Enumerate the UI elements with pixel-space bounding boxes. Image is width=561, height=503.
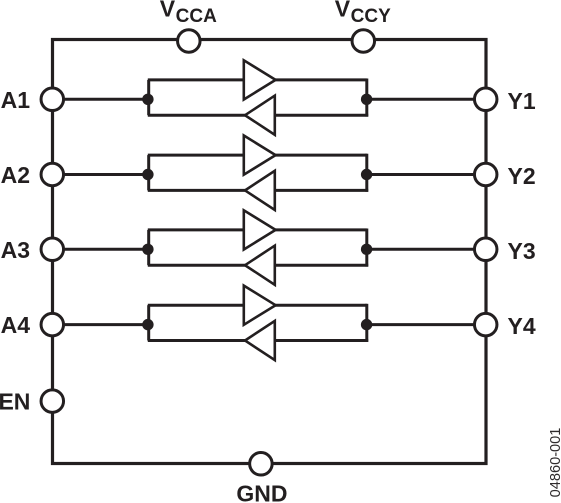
wire forward buffer output to right vertical [275,304,367,307]
channel 1 wires [63,79,475,117]
pin A1 terminal circle [41,88,64,111]
wire forward buffer output to right vertical [275,228,367,231]
buffer amplifier channel 2 A-to-Y (right-pointing triangle) [244,136,276,175]
buffer amplifier channel 1 A-to-Y (right-pointing triangle) [244,60,276,99]
svg-text:Y2: Y2 [508,163,536,189]
wire loop left vertical (node A2 branch) [147,155,150,190]
junction dot node Y2 [361,169,372,180]
svg-text:VCCY: VCCY [335,0,391,27]
junction dot node A2 [142,169,153,180]
wire reverse buffer input bottom-right [275,114,368,117]
svg-text:04860-001: 04860-001 [548,428,561,498]
pin EN terminal circle [41,390,64,413]
buffer amplifier channel 3 A-to-Y (right-pointing triangle) [244,210,276,249]
wire reverse buffer output to bottom-left [148,264,246,267]
wire node to Y3 pin [367,248,475,251]
wire loop right vertical (node Y4 branch) [365,304,368,342]
wire reverse buffer output to bottom-left [148,114,246,117]
buffer amplifier channel 3 Y-to-A (left-pointing triangle) [245,246,275,285]
svg-text:Y4: Y4 [508,313,536,339]
wire node to Y2 pin [367,173,475,176]
svg-text:A2: A2 [1,162,30,188]
wire reverse buffer output to bottom-left [148,189,246,192]
pin Y4 terminal circle [474,313,497,336]
svg-text:A3: A3 [1,237,30,263]
wire top-left to forward buffer input [148,154,245,157]
svg-text:A4: A4 [1,312,31,338]
wire loop right vertical (node Y2 branch) [365,154,368,192]
wire A3 pin to node [63,248,149,251]
junction dot node Y3 [361,244,372,255]
wire loop left vertical (node A4 branch) [147,305,150,340]
svg-text:A1: A1 [1,87,31,113]
svg-text:EN: EN [0,389,30,415]
wire reverse buffer input bottom-right [275,189,368,192]
wire top-left to forward buffer input [148,304,245,307]
junction dot node Y1 [361,94,372,105]
pin VCCY terminal circle [352,30,375,53]
wire loop right vertical (node Y1 branch) [365,79,368,117]
wire node to Y4 pin [367,323,475,326]
wire A2 pin to node [63,173,149,176]
pin A4 terminal circle [41,313,64,336]
channel 4 wires [63,304,475,342]
svg-text:VCCA: VCCA [160,0,217,27]
buffer amplifier channel 2 Y-to-A (left-pointing triangle) [245,171,275,210]
pin A3 terminal circle [41,238,64,260]
wire forward buffer output to right vertical [275,78,367,81]
wire loop left vertical (node A1 branch) [147,80,150,115]
junction dot node A3 [142,244,153,255]
junction dot node A1 [142,94,153,105]
buffer amplifier channel 4 Y-to-A (left-pointing triangle) [245,321,275,360]
pin Y1 terminal circle [474,88,497,111]
wire reverse buffer input bottom-right [275,264,368,267]
buffer amplifier channel 1 Y-to-A (left-pointing triangle) [245,96,275,135]
channel 3 wires [63,229,475,267]
pin VCCA terminal circle [178,30,201,53]
buffer amplifier channel 4 A-to-Y (right-pointing triangle) [244,286,276,325]
wire top-left to forward buffer input [148,78,245,81]
wire A1 pin to node [63,98,149,101]
svg-text:Y3: Y3 [508,238,536,264]
wire loop right vertical (node Y3 branch) [365,229,368,267]
chip outline (supply/ground bus rectangle) [53,40,487,464]
pin A2 terminal circle [41,163,64,186]
wire reverse buffer output to bottom-left [148,339,246,342]
channel 2 wires [63,154,475,192]
wire reverse buffer input bottom-right [275,339,368,342]
wire loop left vertical (node A3 branch) [147,230,150,265]
pin Y3 terminal circle [474,238,497,260]
svg-text:GND: GND [236,481,287,503]
svg-text:Y1: Y1 [508,88,536,114]
wire node to Y1 pin [367,98,475,101]
wire top-left to forward buffer input [148,228,245,231]
junction dot node Y4 [361,319,372,330]
pin Y2 terminal circle [474,163,497,186]
junction dot node A4 [142,319,153,330]
pin GND terminal circle [250,453,273,476]
wire A4 pin to node [63,323,149,326]
wire forward buffer output to right vertical [275,154,367,157]
